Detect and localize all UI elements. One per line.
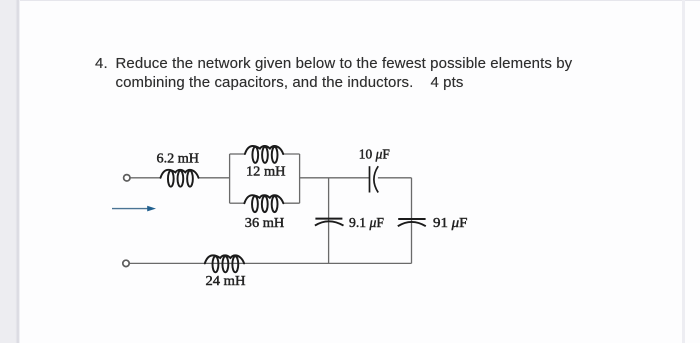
svg-text:9.1 μF: 9.1 μF <box>349 216 384 231</box>
svg-text:24 mH: 24 mH <box>206 274 246 289</box>
svg-text:10 μF: 10 μF <box>359 148 390 163</box>
svg-text:36 mH: 36 mH <box>245 216 284 231</box>
svg-text:91 μF: 91 μF <box>433 216 468 231</box>
svg-text:12 mH: 12 mH <box>246 165 286 180</box>
svg-text:6.2 mH: 6.2 mH <box>157 152 200 167</box>
